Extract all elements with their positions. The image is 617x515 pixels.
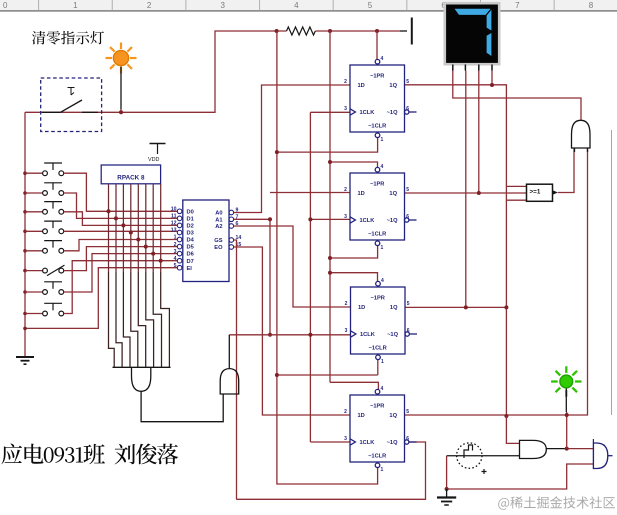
svg-text:VDD: VDD xyxy=(148,157,159,163)
svg-text:A2: A2 xyxy=(215,224,222,230)
svg-text:>=1: >=1 xyxy=(530,189,541,196)
svg-text:3: 3 xyxy=(345,328,348,334)
svg-text:1CLK: 1CLK xyxy=(360,440,376,446)
svg-text:4: 4 xyxy=(294,1,299,10)
svg-text:D1: D1 xyxy=(187,217,194,223)
svg-text:EO: EO xyxy=(214,245,223,251)
svg-text:1Q: 1Q xyxy=(390,305,398,311)
svg-text:1CLK: 1CLK xyxy=(360,332,376,338)
svg-text:~1Q: ~1Q xyxy=(387,110,398,116)
svg-text:~1PR: ~1PR xyxy=(370,181,384,187)
svg-text:~1Q: ~1Q xyxy=(387,440,398,446)
svg-text:1: 1 xyxy=(381,137,384,143)
svg-text:8: 8 xyxy=(589,1,594,10)
svg-text:~1Q: ~1Q xyxy=(387,218,398,224)
svg-text:3: 3 xyxy=(174,249,177,255)
svg-text:~1CLR: ~1CLR xyxy=(368,231,386,237)
svg-text:~1PR: ~1PR xyxy=(371,295,385,301)
svg-text:3: 3 xyxy=(220,1,225,10)
svg-text:D4: D4 xyxy=(187,238,195,244)
svg-text:5: 5 xyxy=(406,409,409,415)
svg-text:1Q: 1Q xyxy=(389,83,397,89)
svg-text:1CLK: 1CLK xyxy=(360,110,376,116)
svg-text:A0: A0 xyxy=(215,211,222,217)
svg-text:0: 0 xyxy=(3,1,8,10)
svg-text:5: 5 xyxy=(368,1,373,10)
svg-text:5: 5 xyxy=(407,301,410,307)
svg-text:7: 7 xyxy=(515,1,520,10)
svg-text:1: 1 xyxy=(381,359,384,365)
svg-text:~1CLR: ~1CLR xyxy=(368,453,386,459)
svg-text:12: 12 xyxy=(171,221,177,227)
svg-text:GS: GS xyxy=(214,238,222,244)
svg-text:4: 4 xyxy=(381,56,384,62)
svg-text:EI: EI xyxy=(187,266,193,272)
svg-text:1D: 1D xyxy=(358,83,365,89)
svg-text:1D: 1D xyxy=(358,413,365,419)
svg-text:4: 4 xyxy=(381,386,384,392)
svg-text:1: 1 xyxy=(381,245,384,251)
svg-text:2: 2 xyxy=(147,1,152,10)
svg-text:1Q: 1Q xyxy=(389,191,397,197)
svg-text:1CLK: 1CLK xyxy=(360,218,376,224)
svg-text:1D: 1D xyxy=(358,191,365,197)
svg-text:11: 11 xyxy=(171,214,177,220)
svg-text:2: 2 xyxy=(345,301,348,307)
svg-text:1D: 1D xyxy=(358,305,365,311)
svg-text:2: 2 xyxy=(344,409,347,415)
svg-text:2: 2 xyxy=(174,242,177,248)
svg-text:4: 4 xyxy=(381,164,384,170)
svg-text:5: 5 xyxy=(174,263,177,269)
svg-text:3: 3 xyxy=(344,436,347,442)
svg-text:1: 1 xyxy=(174,235,177,241)
svg-text:D5: D5 xyxy=(187,245,194,251)
svg-text:2: 2 xyxy=(344,79,347,85)
svg-text:A1: A1 xyxy=(215,217,222,223)
svg-text:5: 5 xyxy=(406,187,409,193)
svg-text:~1CLR: ~1CLR xyxy=(368,123,386,129)
svg-text:D7: D7 xyxy=(187,259,194,265)
svg-text:1: 1 xyxy=(73,1,78,10)
svg-text:4: 4 xyxy=(381,278,384,284)
svg-text:~1CLR: ~1CLR xyxy=(369,345,387,351)
svg-text:~1PR: ~1PR xyxy=(370,403,384,409)
svg-text:D3: D3 xyxy=(187,231,194,237)
svg-text:10: 10 xyxy=(171,207,177,213)
svg-text:D2: D2 xyxy=(187,224,194,230)
svg-text:D0: D0 xyxy=(187,209,194,215)
svg-text:~1PR: ~1PR xyxy=(370,73,384,79)
svg-text:D6: D6 xyxy=(187,252,194,258)
svg-text:1: 1 xyxy=(381,467,384,473)
svg-text:1Q: 1Q xyxy=(389,413,397,419)
svg-text:4: 4 xyxy=(174,256,177,262)
svg-text:13: 13 xyxy=(171,228,177,234)
svg-text:3: 3 xyxy=(344,106,347,112)
svg-text:RPACK 8: RPACK 8 xyxy=(117,174,145,181)
svg-text:~1Q: ~1Q xyxy=(387,332,398,338)
